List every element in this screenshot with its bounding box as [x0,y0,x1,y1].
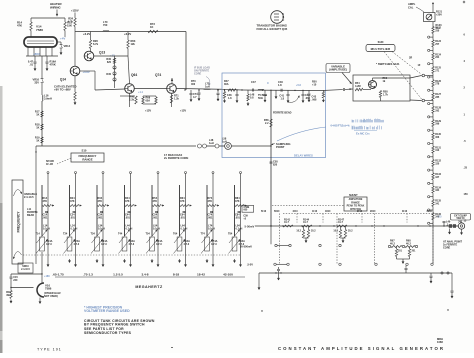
svg-text:R121: R121 [436,11,443,14]
svg-text:Q74: Q74 [155,73,161,77]
svg-text:4.7-3: 4.7-3 [46,243,52,246]
svg-text:47K: 47K [98,200,103,203]
svg-text:L49: L49 [446,221,451,224]
svg-text:C44: C44 [125,214,130,217]
svg-text:39A: 39A [6,294,11,297]
svg-text:1K: 1K [36,126,39,129]
svg-text:T74: T74 [201,233,206,236]
svg-text:0.8: 0.8 [250,96,254,99]
svg-text:L58: L58 [222,138,227,141]
svg-text:AT ANAL POINT: AT ANAL POINT [443,241,462,244]
svg-text:1.2k: 1.2k [174,97,179,100]
svg-text:T44: T44 [118,233,123,236]
svg-text:1R10: 1R10 [325,211,331,213]
svg-text:T84: T84 [228,233,233,236]
svg-text:1K: 1K [36,139,39,142]
svg-text:2F10: 2F10 [357,211,363,213]
svg-text:30A: 30A [224,83,229,86]
svg-text:341: 341 [435,202,440,205]
svg-text:C34A: C34A [101,240,108,243]
svg-text:20.2: 20.2 [311,230,316,233]
svg-text:R17: R17 [35,111,40,114]
svg-text:PEAK TO PEAK: PEAK TO PEAK [347,205,365,208]
svg-text:2.2k: 2.2k [129,98,134,101]
svg-text:R74: R74 [208,197,213,200]
svg-text:R66: R66 [129,96,134,99]
svg-text:R70: R70 [191,80,196,83]
svg-text:R30: R30 [106,58,111,61]
svg-text:FERRITE: FERRITE [27,211,38,214]
svg-text:C24: C24 [70,214,75,217]
svg-text:42-100: 42-100 [223,272,233,276]
svg-text:C43: C43 [305,94,310,97]
svg-text:.001: .001 [43,216,48,219]
svg-text:+88V: +88V [33,52,40,56]
svg-text:4.7-3: 4.7-3 [101,243,107,246]
svg-text:CORE: CORE [194,72,202,75]
svg-text:C14A: C14A [46,240,53,243]
svg-text:4.7-3: 4.7-3 [74,243,80,246]
svg-text:Q64: Q64 [131,73,137,77]
svg-text:271: 271 [435,69,440,72]
svg-text:L64: L64 [181,225,186,228]
svg-text:+.75: +.75 [437,217,442,219]
svg-text:L24: L24 [71,225,76,228]
svg-text:.001: .001 [153,216,158,219]
svg-text:C74A: C74A [211,240,218,243]
svg-text:R67: R67 [390,240,395,243]
svg-text:.25: .25 [464,167,468,170]
svg-text:47K: 47K [180,200,185,203]
svg-text:1uH: 1uH [209,142,214,145]
svg-text:C71: C71 [193,93,198,96]
svg-text:R68: R68 [406,240,411,243]
svg-text:R71: R71 [174,95,179,98]
svg-text:2x FERRITE: 2x FERRITE [443,243,458,246]
svg-text:L84: L84 [236,225,241,228]
svg-text:R84: R84 [235,197,240,200]
svg-text:CORE: CORE [443,246,451,249]
svg-text:L34: L34 [98,225,103,228]
svg-text:C43: C43 [312,96,317,99]
svg-text:INTO 50Ω: INTO 50Ω [350,208,361,211]
svg-text:R64: R64 [180,197,185,200]
svg-text:50Ω: 50Ω [258,97,263,100]
svg-text:C84A: C84A [239,240,246,243]
svg-text:+5.6: +5.6 [296,84,302,87]
svg-text:47K: 47K [153,200,158,203]
svg-text:B: B [283,16,285,19]
svg-text:AMPLITUDE: AMPLITUDE [349,198,363,201]
svg-text:TYPE 191: TYPE 191 [37,348,62,352]
svg-text:3.4-8: 3.4-8 [141,272,148,276]
svg-text:D30: D30 [106,73,111,76]
svg-text:S130: S130 [378,41,384,44]
svg-text:1.8: 1.8 [281,97,285,100]
svg-text:250: 250 [435,29,440,32]
svg-text:4.2M: 4.2M [355,85,361,88]
svg-text:Q14: Q14 [60,78,66,82]
svg-text:4.7-3: 4.7-3 [129,243,135,246]
svg-text:T24: T24 [63,233,68,236]
svg-text:1uH: 1uH [222,140,227,143]
svg-text:Q13: Q13 [99,51,105,55]
svg-text:41.7: 41.7 [284,221,289,224]
svg-text:.001: .001 [235,216,240,219]
svg-text:2R10: 2R10 [370,211,376,213]
svg-text:C64A: C64A [184,240,191,243]
svg-text:7586: 7586 [45,287,52,291]
svg-text:257: 257 [435,43,440,46]
svg-text:MULTIPLIER: MULTIPLIER [371,47,391,51]
svg-text:2.4-10.5: 2.4-10.5 [21,268,30,271]
svg-text:4.7-3: 4.7-3 [211,243,217,246]
svg-text:320: 320 [435,162,440,165]
svg-text:278: 278 [435,83,440,86]
svg-text:C54A: C54A [156,240,163,243]
svg-text:7586: 7586 [36,28,43,32]
svg-text:R18: R18 [35,124,40,127]
svg-text:SHUNT: SHUNT [349,194,358,197]
svg-text:C15: C15 [13,276,18,279]
svg-text:2.2: 2.2 [265,122,269,125]
svg-text:NOT USED): NOT USED) [44,295,58,298]
svg-text:T34: T34 [91,233,96,236]
svg-text:L48: L48 [250,94,255,97]
svg-text:RANGE: RANGE [82,158,92,162]
svg-text:.75-1.3: .75-1.3 [83,272,93,276]
svg-text:R141: R141 [284,218,291,221]
svg-text:1.8: 1.8 [228,97,232,100]
svg-text:CONSTANT AMPLITUDE SIGNAL GENE: CONSTANT AMPLITUDE SIGNAL GENERATOR [278,346,445,351]
svg-text:R144: R144 [303,218,310,221]
svg-text:VOLTMETER RANGE USED: VOLTMETER RANGE USED [84,309,130,313]
svg-text:SEMICONDUCTOR TYPES: SEMICONDUCTOR TYPES [84,331,132,335]
svg-text:BEAD: BEAD [27,214,34,217]
svg-text:C58: C58 [273,161,278,164]
svg-text:C: C [283,19,285,22]
svg-text:.001: .001 [180,216,185,219]
svg-text:47K: 47K [70,200,75,203]
svg-text:J48: J48 [458,220,463,223]
svg-text:(OTHER HALF: (OTHER HALF [44,292,61,295]
svg-text:1uH: 1uH [205,85,210,88]
svg-text:306: 306 [435,136,440,139]
svg-text:C34: C34 [98,214,103,217]
svg-text:T14: T14 [36,233,41,236]
svg-text:R58: R58 [264,119,269,122]
svg-text:T64: T64 [173,233,178,236]
svg-text:R69: R69 [146,97,151,100]
svg-text:4.7-3: 4.7-3 [184,243,190,246]
svg-text:2R: 2R [409,57,412,60]
svg-text:.001: .001 [125,216,130,219]
svg-text:+20V: +20V [436,13,442,16]
svg-text:FERRITE BEAD: FERRITE BEAD [273,112,292,115]
svg-text:201: 201 [398,250,403,253]
svg-text:C64: C64 [180,214,185,217]
svg-text:20.2: 20.2 [348,230,353,233]
svg-text:285: 285 [435,96,440,99]
svg-text:R15: R15 [6,291,11,294]
svg-text:ON FERRITE: ON FERRITE [194,69,209,72]
svg-text:L44: L44 [126,225,131,228]
svg-text:400: 400 [191,83,196,86]
svg-text:L48: L48 [209,139,214,142]
svg-text:8-18: 8-18 [173,272,179,276]
svg-text:10.2: 10.2 [333,230,338,233]
svg-text:.068: .068 [312,98,317,101]
svg-text:3R10: 3R10 [427,211,433,213]
svg-text:+1.1: +1.1 [138,91,144,94]
svg-text:292: 292 [435,109,440,112]
svg-text:1F10: 1F10 [312,211,318,213]
svg-text:41.7: 41.7 [338,221,343,224]
svg-text:201: 201 [412,250,417,253]
svg-text:WIRING: WIRING [50,5,61,9]
svg-text:327: 327 [435,176,440,179]
svg-text:MEGAHERTZ: MEGAHERTZ [135,285,163,289]
svg-text:313: 313 [435,149,440,152]
svg-text:C54: C54 [153,214,158,217]
svg-text:40.2: 40.2 [406,242,411,245]
svg-text:1.2-5.5: 1.2-5.5 [113,272,123,276]
svg-text:R24: R24 [70,197,75,200]
svg-text:47K: 47K [235,200,240,203]
svg-text:R58: R58 [383,91,388,94]
svg-text:4.7: 4.7 [193,96,197,99]
svg-text:1K: 1K [36,113,39,116]
svg-text:R44: R44 [125,197,130,200]
svg-text:1F-1R: 1F-1R [46,163,53,166]
svg-text:FOR ALL EXCEPT Q45: FOR ALL EXCEPT Q45 [257,27,288,31]
svg-text:4.7-3: 4.7-3 [156,243,162,246]
svg-text:47K: 47K [208,200,213,203]
svg-text:R54: R54 [355,82,360,85]
svg-text:RANGE: RANGE [351,201,360,204]
svg-text:47K: 47K [43,200,48,203]
svg-text:R147: R147 [338,218,345,221]
svg-text:.001: .001 [70,216,75,219]
svg-text:C48: C48 [227,94,232,97]
svg-text:.001: .001 [98,216,103,219]
svg-text:150: 150 [464,193,469,196]
svg-text:18-42: 18-42 [197,272,205,276]
svg-text:+10: +10 [312,83,317,86]
svg-text:SW10: SW10 [22,265,29,268]
svg-text:R34: R34 [98,197,103,200]
svg-text:47K: 47K [125,200,130,203]
svg-text:5R10: 5R10 [274,211,280,213]
svg-text:FREQUENCY: FREQUENCY [17,211,21,233]
svg-text:C44A: C44A [129,240,136,243]
svg-text:.001: .001 [208,216,213,219]
svg-text:T54: T54 [146,233,151,236]
svg-text:R56: R56 [383,77,388,80]
svg-text:SF10R: SF10R [46,160,54,163]
svg-text:.65-1.75: .65-1.75 [52,272,64,276]
svg-text:820: 820 [273,163,278,166]
svg-text:EXT EQUIP: EXT EQUIP [454,214,467,217]
svg-text:264: 264 [435,56,440,59]
svg-text:R47: R47 [224,80,229,83]
svg-text:L74: L74 [208,225,213,228]
svg-text:R54: R54 [153,197,158,200]
svg-text:10.2: 10.2 [296,230,301,233]
svg-text:.068: .068 [305,97,310,100]
svg-text:40.2: 40.2 [390,242,395,245]
svg-text:C84: C84 [235,214,240,217]
svg-text:41.7: 41.7 [303,221,308,224]
svg-text:R14: R14 [43,197,48,200]
svg-text:C58B: C58B [244,207,250,209]
svg-text:R50: R50 [312,81,317,84]
svg-text:+180: +180 [44,275,50,278]
svg-text:C14: C14 [43,214,48,217]
svg-text:+4V: +4V [60,37,65,41]
svg-text:5F10: 5F10 [261,211,267,213]
svg-text:65A: 65A [146,99,151,102]
svg-text:3F10: 3F10 [402,211,408,213]
svg-text:299: 299 [435,123,440,126]
svg-text:620: 620 [107,61,112,64]
svg-text:L54: L54 [153,225,158,228]
svg-text:1.7k: 1.7k [383,93,388,96]
svg-text:L14: L14 [43,225,48,228]
svg-text:C74: C74 [208,214,213,217]
svg-text:C41: C41 [279,95,284,98]
svg-text:C24A: C24A [74,240,81,243]
svg-text:BY FREQUENCY RANGE SWITCH: BY FREQUENCY RANGE SWITCH [84,323,145,327]
svg-text:1F: 1F [418,64,421,67]
svg-text:334: 334 [435,189,440,192]
svg-text:L11: L11 [27,208,32,211]
svg-text:220: 220 [13,279,18,282]
svg-text:R19: R19 [35,137,40,140]
svg-text:IF BUS LOAD: IF BUS LOAD [194,67,210,70]
svg-text:50Ω 5X: 50Ω 5X [456,217,464,220]
